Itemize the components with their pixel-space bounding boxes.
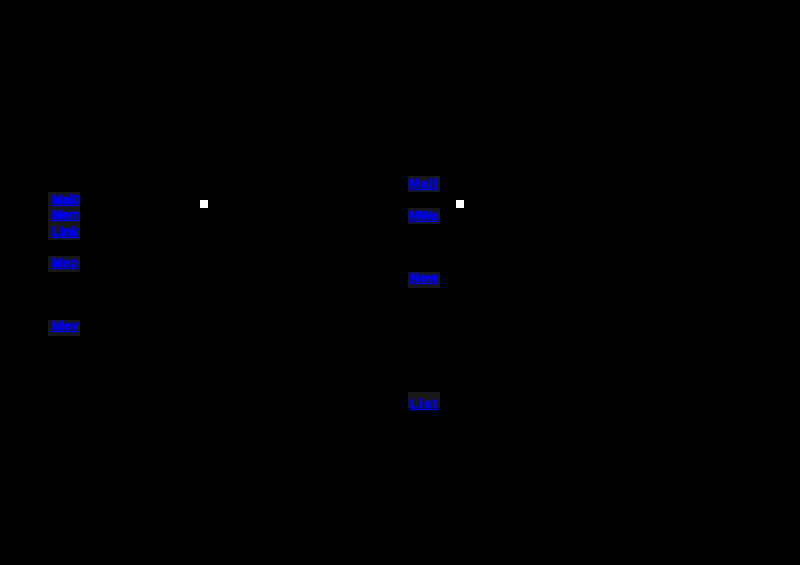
link R4 [410,398,439,409]
link L4 [52,257,79,268]
link L2 [52,209,79,220]
halo block R2 [408,208,440,224]
link L5 [52,320,79,331]
link L1 [52,194,80,205]
halo block left group [48,192,80,240]
link L3 [52,226,79,237]
halo block L4 [48,256,80,272]
checkbox square W1 [200,200,208,208]
checkbox square W2 [456,200,464,208]
halo block R4 [408,392,440,408]
link R2 [409,210,438,221]
link R3 [410,272,439,283]
halo block L5 [48,320,80,336]
link R1 [409,178,439,189]
halo block R3 [408,272,440,288]
halo block R1 [408,176,440,192]
